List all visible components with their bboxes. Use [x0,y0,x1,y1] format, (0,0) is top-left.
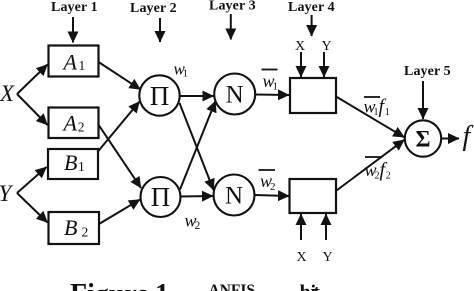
label wbar2 f2 [365,157,391,182]
svg-text:h: h [300,281,311,291]
svg-text:1: 1 [183,68,189,80]
wire X into box2 [300,214,302,240]
rect A2 [49,108,99,139]
box layer4 bottom [290,179,337,213]
svg-text:2: 2 [82,225,89,240]
wire Y into box2 [325,214,327,240]
wire X into box1 [300,52,302,77]
svg-text:Π: Π [151,182,171,212]
svg-text:2: 2 [78,120,85,135]
svg-text:B: B [64,150,77,175]
wire A2 to P2 [98,124,141,188]
svg-text:ANFIS: ANFIS [209,282,256,291]
svg-text:1: 1 [385,107,390,118]
wire Y to B1 [17,167,47,193]
svg-text:Layer 3: Layer 3 [209,0,256,14]
svg-text:A: A [62,111,78,136]
Layer 5 arrow [422,81,424,119]
label A2 [62,111,85,136]
wire N1 to box1 [256,94,290,97]
wire box2 to Sigma [337,140,405,191]
Layer 2 arrow [159,18,161,42]
svg-text:2: 2 [386,171,391,182]
svg-text:X: X [297,250,307,265]
wire Y into box1 [323,52,325,77]
svg-text:X: X [295,39,305,54]
rect B1 [48,149,98,179]
label wbar1 f1 [364,96,390,119]
svg-text:Layer 4: Layer 4 [288,0,335,15]
svg-text:1: 1 [273,81,279,93]
svg-text:Y: Y [0,181,14,206]
svg-text:Layer 2: Layer 2 [130,1,177,16]
svg-text:Layer 5: Layer 5 [404,64,451,79]
svg-text:1: 1 [79,58,86,73]
svg-text:1.: 1. [155,279,176,291]
wire X to A1 [17,65,48,95]
label wbar2 [259,170,276,193]
wire A1 to P1 [99,62,141,90]
svg-text:f: f [463,121,474,152]
wire P1 to N2 [180,103,214,190]
svg-text:X: X [0,81,15,106]
svg-text:N: N [226,82,244,109]
wire P2 to N1 [180,101,216,190]
svg-text:A: A [62,50,78,75]
svg-text:t: t [313,281,320,291]
wire P1 to N1 [180,95,214,97]
wire B1 to P1 [98,102,140,153]
label B1 [64,150,85,175]
Layer 1 arrow [72,17,74,43]
svg-text:Π: Π [150,81,170,111]
box layer4 top [290,78,336,113]
wire B2 to P2 [99,200,140,225]
node P1 [139,75,179,115]
node P2 [141,177,181,217]
svg-text:Layer 1: Layer 1 [51,0,98,15]
label w1 [174,60,189,80]
Layer 4 arrow [311,15,313,36]
node Sigma [405,120,441,156]
svg-text:1: 1 [78,159,85,174]
svg-text:Y: Y [323,250,333,265]
rect B2 [49,212,100,244]
label wbar1 [262,70,279,93]
Layer 3 arrow [230,14,232,40]
svg-text:Σ: Σ [415,127,430,152]
wire P2 to N2 [181,195,214,198]
svg-text:N: N [225,183,243,210]
label A1 [62,50,86,75]
node N1 [214,74,255,115]
wire box1 to Sigma [336,97,404,138]
wire Y to B2 [17,193,48,223]
wire X to A2 [17,94,48,125]
svg-text:B: B [64,215,77,240]
svg-text:Figure: Figure [70,279,149,291]
node N2 [214,175,255,216]
rect A1 [49,46,99,77]
label w2 [185,211,201,233]
svg-text:2: 2 [195,220,201,232]
wire N2 to box2 [255,195,290,196]
svg-text:Y: Y [322,39,332,54]
wire Sigma to f [441,138,459,140]
svg-text:2: 2 [270,181,276,193]
label B2 [64,215,88,240]
